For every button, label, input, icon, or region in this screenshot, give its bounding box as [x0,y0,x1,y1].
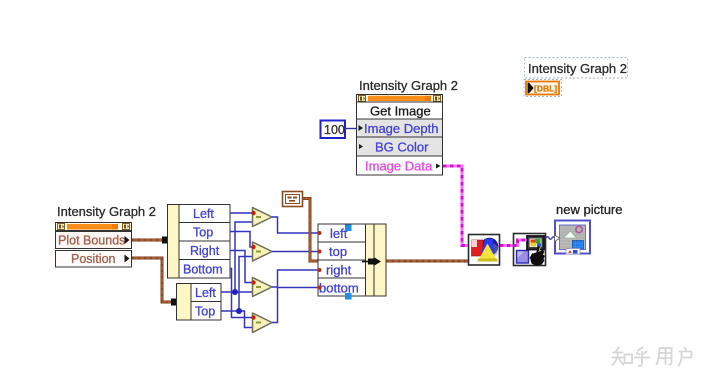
svg-text:BG Color: BG Color [375,140,429,155]
svg-text:Intensity Graph 2: Intensity Graph 2 [57,204,156,219]
numeric constant 100 [321,121,346,139]
invoke node U2: Intensity Graph 2 (Get Image) [357,95,443,176]
VI icon: Draw Flattened Pixmap [469,235,500,266]
svg-text:Right: Right [190,244,220,258]
glyph hu [635,348,650,367]
wire: pixmap to Draw Picture (pink cluster) [500,240,527,246]
unbundle node A: Plot Bounds (Left/Top/Right/Bottom) [168,205,231,279]
svg-text:right: right [326,263,352,278]
watermark: zhihu user (drawn glyphs) [613,348,692,367]
bundle-by-name node: left/top/right/bottom [318,224,387,300]
wire: unbundleA.Top to subtract S2 top input [230,232,253,248]
subtract S2 [251,242,272,261]
label box: Intensity Graph 2 (top right, selected) [525,58,628,79]
terminal: Intensity Graph 2 [DBL] [524,80,562,97]
wire: S2 output to bundle.top [272,251,318,253]
svg-text:top: top [329,244,347,259]
svg-text:Get Image: Get Image [370,104,431,119]
wire: unbundleB.Left branch to S1 bottom input and S3 bottom input [221,222,255,292]
VI icon: Draw Picture (hand with frame) [514,234,546,266]
unbundle node B: Position (Left/Top) [177,284,222,321]
glyph yong [657,348,672,365]
U2 row: Get Image [357,102,443,119]
wire: Position cluster (brown) to unbundle B [132,258,184,306]
glyph hu2 [679,348,692,366]
svg-text:Left: Left [195,286,216,300]
subtract S1 [251,208,272,227]
blue handles [345,225,352,232]
wire: cluster constant to bundle middle input (brown) [303,199,318,262]
blue square glyph [573,241,584,250]
svg-text:new picture: new picture [556,202,622,217]
wire: unbundleA.Left to subtract S1 top input (blue) [230,212,253,214]
svg-text:bottom: bottom [319,281,359,296]
wire: pink jog into picture frame (over icon) [513,240,527,246]
svg-text:Top: Top [193,226,213,240]
U1 header [56,223,132,231]
bundle input coercion dots [318,231,322,235]
wire: unbundleB.Top branch to S2 bottom input and S4 bottom input [221,257,255,328]
junction dot: unbundleB.Top branch [236,308,242,314]
svg-text:Bottom: Bottom [183,263,223,277]
junction dot: unbundleB.Left branch [232,289,238,295]
ring glyph [576,226,582,232]
U2 header [357,95,443,103]
cluster constant (empty picture rect) [283,192,303,207]
U1 row: Position [56,251,132,268]
input arrow [555,235,561,241]
subtract S4 [251,313,272,333]
glyph zhi [613,348,624,366]
wire: S3 output to bundle.right [272,270,318,287]
svg-text:Intensity Graph 2: Intensity Graph 2 [528,61,627,76]
bundle cluster pass-through arrows [362,261,369,263]
wire: Plot Bounds cluster (brown) to unbundle A [132,237,175,244]
subtract S3 [251,278,272,297]
hand [530,246,544,266]
small pict glyph [566,249,580,255]
wire: S4 output to bundle.bottom [272,288,318,323]
svg-text:[DBL]: [DBL] [534,84,557,94]
svg-text:Plot Bounds: Plot Bounds [58,234,125,248]
svg-text:100: 100 [324,123,345,137]
wire: unbundleA.Bottom to subtract S4 top input [230,269,253,318]
U1 row: Plot Bounds [56,232,132,249]
svg-text:Image Data: Image Data [365,159,433,174]
svg-text:Intensity Graph 2: Intensity Graph 2 [359,78,458,93]
svg-text:Position: Position [71,252,116,266]
U2 row: BG Color [357,137,443,156]
wire: bundle output cluster (brown) to Draw Flattened Pixmap [386,260,469,263]
wire: picture to indicator (blue wavy) [546,237,558,240]
triangle glyph [564,231,577,238]
U2 row: Image Depth [357,119,443,137]
svg-text:Left: Left [193,207,214,221]
property node U1: Intensity Graph 2 (Plot Bounds / Position) [56,223,132,268]
wire: Image Data to Draw Flattened Pixmap (pink cluster) [443,166,468,246]
wire: 100 to Image Depth (blue) [346,128,357,130]
wire: unbundleA.Right to subtract S3 top input [230,251,253,283]
wire: S1 output to bundle.left [272,217,318,233]
indicator terminal: new picture [555,221,591,255]
U2 row: Image Data [357,156,443,175]
svg-text:Top: Top [195,305,215,319]
svg-text:Image Depth: Image Depth [364,121,438,136]
